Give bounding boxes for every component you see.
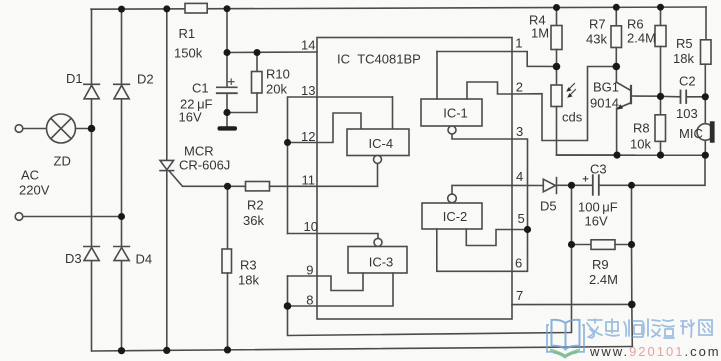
resistor R8 <box>655 96 666 155</box>
junction pins 3/5/6 <box>524 226 531 233</box>
junction emitter rail / BG1 emitter <box>613 152 620 159</box>
AC input terminal lower <box>15 213 23 221</box>
char wang <box>699 320 712 335</box>
capacitor C1 <box>217 53 237 113</box>
junction top rail / R7 <box>613 4 620 11</box>
wire pin 12 to IC-4 input <box>288 113 362 143</box>
wire pin 13 to IC-4 input <box>288 97 318 143</box>
junction top rail / R1-C1 node <box>224 5 231 12</box>
watermark book icon <box>547 320 584 356</box>
diode D2 <box>114 84 130 99</box>
char zi <box>662 320 674 338</box>
capacitor C2 <box>661 91 706 104</box>
junction R5 / C2 / MIC <box>702 93 709 100</box>
watermark book base <box>550 350 580 358</box>
resistor R5 <box>701 7 712 97</box>
diode D4 <box>114 247 130 261</box>
gate IC-2 <box>422 194 482 229</box>
gate IC-4 <box>347 129 409 163</box>
wire pin 2 to IC-1 input <box>467 82 512 99</box>
wire emitter rail y=155 <box>557 154 706 156</box>
junction emitter rail / R8 <box>657 152 664 159</box>
junction emitter rail / MIC / C3 right <box>702 152 709 159</box>
junction lamp / D1 column <box>88 125 96 133</box>
junction bottom rail / MCR cathode <box>163 347 170 354</box>
wire pin 2 to R7/collector node <box>512 67 616 141</box>
junction top rail / R6 <box>657 4 664 11</box>
wire pin 9 to IC-3 input <box>288 273 364 291</box>
wire left column x=91 (D1 branch) <box>91 9 93 351</box>
resistor R7 <box>611 7 622 66</box>
wire pins 8/9 riser <box>287 276 289 306</box>
junction AC lower / D2 column <box>118 213 125 220</box>
diode D1 <box>84 84 100 99</box>
wire pin 4 to D5 <box>512 184 543 186</box>
gate IC-1 <box>421 99 482 134</box>
wire second column x=121.5 (D2 branch) <box>121 9 123 351</box>
watermark url www.920101.com <box>589 344 721 359</box>
char dian <box>606 319 619 336</box>
wire pin 7 ground lead <box>512 303 632 305</box>
wire pin 8 to IC-3 input <box>288 273 394 306</box>
char wei <box>624 320 643 337</box>
wire lamp to node <box>76 128 92 130</box>
resistor R4 <box>551 8 562 67</box>
wire pin 14 feed <box>227 51 317 54</box>
junction top rail / MCR column <box>163 5 170 12</box>
wire MCR gate node to R2 <box>228 185 246 187</box>
transistor BG1 9014 <box>616 67 660 156</box>
wire pin 11 to IC-4 output <box>377 163 379 186</box>
wire C3 right node to emitter rail <box>632 155 706 185</box>
wire pin 10 to IC-3 output <box>288 234 379 239</box>
junction pin14 / R10 <box>254 49 261 56</box>
char xiu <box>643 319 660 337</box>
resistor R2 <box>246 182 378 191</box>
capacitor C3 <box>572 175 632 195</box>
junction C1- / R10 / ground <box>223 109 230 116</box>
junction pins 12/13/10 <box>284 139 291 146</box>
thyristor MCR CR-606J <box>160 160 228 186</box>
junction BG1 base / R6 / R8 / C2 <box>657 93 664 100</box>
wire top supply rail <box>91 7 706 9</box>
junction pins 8/9 <box>284 302 292 310</box>
resistor R3 <box>222 186 232 350</box>
junction top rail / D2 column <box>118 6 125 13</box>
wire MCR column x=166.5 <box>166 9 168 351</box>
junction R9 left / pins 8-9 net <box>568 241 575 248</box>
wire pin 6 to IC-2 input <box>437 229 528 271</box>
wire pin 1 to IC-1 input <box>437 52 512 100</box>
gate IC-3 <box>348 238 407 273</box>
char liao <box>681 320 694 337</box>
wire R9 right node to pin7/bottom rail <box>631 245 634 347</box>
wire lower terminal to D2/D4 column <box>23 216 122 218</box>
IC TC4081BP outline <box>317 38 512 320</box>
wire bottom rail <box>92 347 632 352</box>
junction MCR gate / R2 / R3 <box>224 183 231 190</box>
junction R9 right / pin7 riser <box>628 241 635 248</box>
watermark chinese text 家电维修资料网 <box>587 319 712 338</box>
junction bottom rail / D4 column <box>118 347 125 354</box>
wire pin 4 from IC-2 output <box>452 185 512 194</box>
wire C3 left riser <box>571 185 573 244</box>
wire pins 12/13 to pin 10 riser <box>287 143 289 234</box>
wire pin 5 to IC-2 input <box>466 229 527 246</box>
junction R7 / BG1 collector / pin2 <box>613 63 621 71</box>
char jia <box>587 319 602 338</box>
lamp ZD <box>47 114 76 143</box>
resistor R10 <box>227 53 262 113</box>
wire terminal to lamp ZD <box>23 128 47 130</box>
junction bottom rail / R3 <box>224 346 231 353</box>
diode D3 <box>84 247 100 261</box>
wire pin 1 to R4/cds node <box>512 52 557 67</box>
resistor R1 <box>185 3 207 13</box>
junction top rail / R4 <box>553 4 560 11</box>
junction C3 right node <box>628 182 635 189</box>
junction pin 7 / ground riser <box>628 301 636 309</box>
microphone MIC <box>697 97 715 155</box>
resistor R9 <box>572 240 632 250</box>
junction D5 / C3 / R9 left <box>568 182 575 189</box>
junction pin14 / C1 <box>224 49 231 56</box>
wire C3 right riser <box>631 185 633 244</box>
junction R4 / cds / pin1 <box>553 63 561 71</box>
ground symbol <box>218 113 238 131</box>
photoresistor cds <box>551 67 617 156</box>
resistor R6 <box>655 7 666 96</box>
wire C1/pin14 riser x=227 <box>226 9 228 53</box>
AC input terminal upper <box>15 125 23 133</box>
wire pins 8/9 to C3 minus rail <box>288 245 572 336</box>
wire pin 3 from IC-1 output <box>452 134 528 230</box>
diode D5 <box>543 178 571 194</box>
